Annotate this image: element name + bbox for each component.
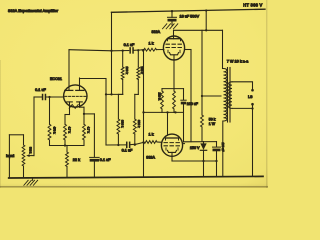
capacitor 0.1uF cathode bypass (90, 156, 100, 158)
svg-text:22 k: 22 k (73, 158, 80, 162)
svg-text:0.1 uF: 0.1 uF (122, 149, 133, 153)
wire: HT drop for screen bleeder (201, 30, 203, 115)
resistor column A lower (330k) (117, 119, 120, 134)
resistor 220R cathode B (173, 91, 176, 109)
svg-text:150 V: 150 V (190, 146, 200, 150)
wire (157, 49, 164, 51)
junctions on y=50 wire (110, 50, 112, 52)
resistor 4.7k cathode 2 (80, 106, 85, 108)
pot wiper arrow (29, 155, 35, 157)
transformer core (227, 68, 229, 123)
wire: primary bottom to ground rail (222, 121, 224, 177)
svg-text:330 k: 330 k (121, 120, 125, 128)
ECC81 cathode leads (69, 102, 71, 115)
wire: top anode to OPT primary top (174, 29, 223, 31)
wire (157, 141, 162, 143)
resistor 1k bottom grid stopper (144, 141, 157, 144)
bottom 832A screen dashes (164, 142, 180, 144)
wire (117, 94, 119, 119)
svg-text:832A: 832A (152, 30, 161, 34)
wire bracket top (162, 88, 184, 90)
wire: wiper riser (33, 97, 35, 156)
input loop (9, 134, 23, 136)
capacitor 0.1uF input coupling (42, 94, 44, 101)
capacitor C: 16uF 500V reservoir (171, 11, 173, 17)
chassis ground symbol (32, 178, 34, 181)
wire: HT drop to rail (205, 10, 207, 30)
wire (136, 142, 144, 144)
wire (134, 49, 142, 51)
top 832A anode bar (168, 38, 181, 40)
wire to ECC81 grid (46, 96, 63, 98)
scan border bottom (0, 186, 268, 188)
wire: ECC81 left anode riser (68, 50, 70, 86)
svg-text:16 uF 500V: 16 uF 500V (180, 15, 200, 19)
wire: anode drop (105, 79, 107, 146)
wire: secondary bottom (232, 107, 253, 109)
top 832A control grid dashes (166, 47, 182, 49)
wire (69, 50, 112, 51)
wire: ground rail (9, 176, 263, 178)
bottom 832A anode bar (166, 137, 179, 139)
svg-text:832A: 832A (146, 155, 155, 159)
wire: screen riser top 832A (185, 49, 191, 51)
junction 16uF/rail (171, 10, 173, 12)
svg-text:470 k: 470 k (53, 127, 57, 135)
wire stub anode-drop to colA (106, 93, 123, 95)
svg-text:220 R: 220 R (158, 93, 162, 101)
wire jog (135, 93, 139, 95)
diode zener 150V (203, 142, 205, 144)
capacitor 100uF cathode bypass (183, 89, 185, 100)
svg-text:500 k: 500 k (28, 147, 32, 154)
resistor column B lower (330k) (133, 119, 136, 134)
bottom 832A cathode (168, 150, 177, 152)
ECC81 anode bars (65, 89, 84, 91)
wire: HT top rail (111, 9, 265, 12)
svg-text:4.7 k: 4.7 k (68, 127, 72, 134)
wire (112, 50, 129, 52)
svg-text:1 k: 1 k (148, 42, 153, 46)
svg-text:ECC81: ECC81 (50, 77, 62, 81)
wire (134, 94, 136, 119)
tube 832A lower section (161, 134, 182, 156)
svg-text:50 k: 50 k (209, 117, 216, 121)
wire: link row y=112.4 (144, 111, 184, 113)
capacitor 0.1uF top coupling (129, 47, 131, 54)
svg-text:1 W: 1 W (209, 122, 216, 126)
wire: cathode bottoms join (50, 145, 85, 147)
capacitor 0.1uF bottom coupling (126, 142, 128, 149)
wire: cathode bypass tap (84, 113, 94, 115)
wire (130, 143, 136, 146)
tube ECC81 envelope (64, 85, 87, 107)
svg-text:4.7 k: 4.7 k (87, 127, 91, 134)
svg-text:0.1 uF: 0.1 uF (35, 88, 46, 92)
svg-text:HT 366 V: HT 366 V (243, 3, 262, 8)
wire (106, 144, 126, 146)
ECC81 grid dashes (65, 95, 86, 97)
potentiometer 500k volume (23, 135, 25, 145)
capacitor 100uF screen bypass (216, 142, 218, 147)
wire: OPT centre tap (202, 95, 221, 97)
tube 832A upper section (163, 36, 184, 60)
resistor 22k tail (65, 145, 67, 147)
svg-text:832A Experimental Amplifier: 832A Experimental Amplifier (8, 8, 59, 13)
bottom 832A beam plates (165, 148, 167, 150)
scan border left (0, 60, 1, 188)
top 832A beam plates (167, 50, 169, 52)
LS terminal bottom (251, 103, 254, 106)
wire: secondary top to LS (232, 81, 253, 83)
wire: LS return (252, 104, 254, 177)
top 832A anode lead (173, 30, 175, 38)
wire (222, 30, 224, 68)
svg-text:100 k: 100 k (125, 67, 129, 75)
top 832A cathode (170, 53, 179, 55)
resistor 1k top grid stopper (142, 48, 157, 51)
wire: bottom cathode to bias network (172, 160, 217, 162)
wire: HT riser down to driver stage (111, 12, 113, 94)
bottom 832A cathode lead (171, 152, 173, 161)
transformer secondary (229, 82, 232, 109)
bottom 832A control grid dashes (164, 145, 180, 147)
svg-text:0.1 uF: 0.1 uF (100, 158, 111, 162)
resistor 50k 1W bleeder (201, 115, 204, 127)
svg-text:Input: Input (6, 154, 14, 158)
resistor column B upper (220k) (137, 50, 139, 67)
resistor 470k grid leak ECC81 (49, 97, 51, 124)
top 832A screen dashes (166, 43, 182, 45)
ground under 16uF cap (163, 24, 178, 29)
svg-text:7 W 10 k a-a: 7 W 10 k a-a (227, 59, 249, 63)
transformer OPT 7W 10k a-a primary (224, 69, 227, 122)
resistor 220R cathode A (161, 91, 164, 109)
grid-leak column x=143.5 (143, 50, 145, 177)
wire jog (118, 93, 122, 95)
resistor 4.7k cathode 1 (65, 114, 70, 116)
top 832A cathode lead (173, 55, 175, 89)
scan border right (266, 0, 268, 188)
ECC81 cathode bars (67, 101, 73, 103)
wire: ECC81 right anode riser (79, 78, 81, 86)
ECC81 heater (69, 105, 78, 109)
wire: zener top rail (184, 141, 217, 143)
LS terminal top (251, 89, 254, 92)
ECC81 anode leads (68, 86, 70, 91)
svg-text:330 k: 330 k (137, 120, 141, 128)
svg-text:100 uF: 100 uF (187, 102, 199, 106)
svg-text:1 k: 1 k (148, 133, 153, 137)
wire: down to lower 832A anode (167, 112, 169, 135)
svg-text:LS: LS (248, 95, 253, 99)
svg-text:0.1 uF: 0.1 uF (124, 43, 135, 47)
bottom 832A screen lead (183, 143, 185, 145)
resistor column A upper (100k) (122, 51, 124, 67)
